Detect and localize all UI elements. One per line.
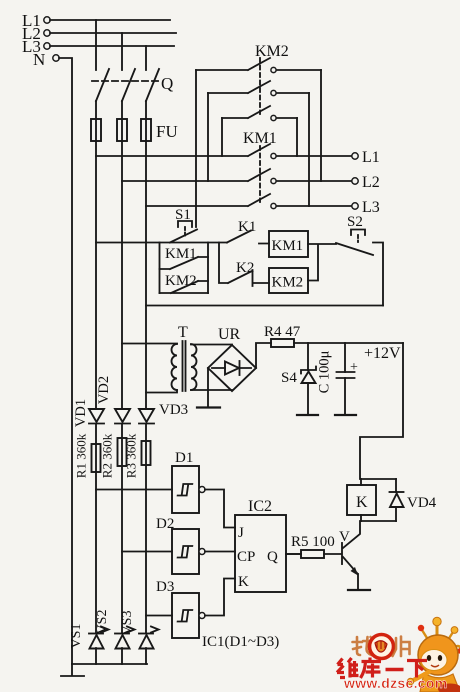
aux contact KM1 (latch) [160, 243, 209, 294]
fuse FU3 [141, 119, 151, 141]
wire KM2 middle feeder to L2 row [207, 93, 209, 181]
breaker Q pole 3 [146, 69, 159, 101]
thyristor VS3 [139, 627, 159, 649]
svg-text:+: + [350, 360, 358, 375]
wire phase C vertical [145, 46, 147, 664]
wire +12V rail [294, 342, 403, 344]
node L3 input terminal [22, 37, 50, 56]
contactor coil KM1 [269, 231, 308, 257]
resistor R5 [286, 550, 341, 558]
fuse FU1 [91, 119, 101, 141]
relay coil K [347, 479, 376, 521]
svg-text:T: T [178, 324, 188, 341]
contactor KM1 contact row 1 (L1) [96, 144, 352, 159]
node L2 input terminal [22, 24, 50, 43]
flip-flop IC2 [235, 515, 286, 592]
wire KM2 right feeder to L1 row [221, 118, 223, 156]
transistor V [342, 543, 358, 589]
svg-text:KM2: KM2 [272, 275, 304, 291]
contactor KM2 contact row 1 [196, 58, 321, 73]
relay contact K2 [219, 243, 269, 287]
svg-text:R5 100: R5 100 [291, 534, 335, 550]
diode VD1 [89, 409, 104, 424]
watermark text weiku yixia (red) [337, 658, 427, 679]
svg-text:R3 360k: R3 360k [124, 433, 139, 478]
wire KM2 row1 output down to L2 out [320, 70, 322, 181]
wire L1 bus [50, 19, 170, 21]
svg-text:+12V: +12V [364, 345, 401, 362]
diode VD3 [139, 409, 154, 424]
thyristor VS2 [115, 627, 135, 649]
svg-text:R1 360k: R1 360k [74, 433, 89, 478]
svg-text:VD2: VD2 [96, 376, 112, 404]
watermark dzsc.com mascot [407, 617, 460, 692]
node L2 output terminal [352, 174, 380, 191]
wire KM2 row3 output down to L1 out [296, 118, 298, 156]
svg-text:L2: L2 [362, 174, 380, 191]
schmitt trigger D3 [146, 593, 205, 638]
svg-text:L3: L3 [362, 199, 380, 216]
ground main [61, 664, 84, 676]
wire N down left side [59, 58, 72, 664]
relay contact K1 [227, 219, 269, 244]
svg-text:Q: Q [267, 549, 278, 565]
watermark text zhao (find) [353, 637, 375, 655]
watermark logo circle [370, 635, 394, 659]
node N input terminal [33, 50, 59, 69]
svg-text:R2 360k: R2 360k [100, 433, 115, 478]
diode VD2 [115, 409, 130, 424]
wire D3 output to K [205, 579, 235, 616]
svg-text:VD1: VD1 [73, 399, 89, 427]
svg-text:KM2: KM2 [165, 273, 197, 289]
svg-text:Q: Q [161, 74, 173, 93]
wire L2 bus [50, 32, 176, 34]
svg-text:VS3: VS3 [120, 611, 135, 636]
svg-text:KM1: KM1 [272, 238, 304, 254]
svg-text:K: K [238, 574, 249, 590]
wire bottom bus [72, 663, 147, 665]
svg-text:S4: S4 [281, 370, 297, 386]
node L1 output terminal [352, 149, 380, 166]
svg-text:V: V [339, 529, 350, 545]
svg-text:UR: UR [218, 326, 241, 343]
transformer T primary winding [122, 344, 177, 393]
ground below transistor [348, 589, 370, 591]
node L3 output terminal [352, 199, 380, 216]
thyristor VS1 [89, 627, 109, 649]
contactor KM2 contact row 3 [222, 106, 297, 121]
node L1 input terminal [22, 11, 50, 30]
wire KM2 left feeder to L3 row [195, 70, 197, 227]
wire control rail from L1 phase [96, 242, 227, 244]
schmitt trigger D2 [122, 529, 205, 574]
pushbutton S2 [336, 230, 373, 256]
zener diode S4 [301, 343, 316, 414]
breaker Q linkage dashed [92, 80, 160, 82]
wire D2 output to CP [205, 551, 235, 553]
resistor R3 [142, 441, 151, 465]
wire bottom control rail to L3 phase [146, 305, 383, 307]
contactor KM2 contact row 2 [208, 81, 309, 96]
wire D1 output to J [205, 490, 235, 528]
watermark text pian (chip) [393, 637, 410, 657]
svg-text:J: J [238, 525, 244, 541]
wire L3 bus [50, 45, 174, 47]
svg-text:S2: S2 [347, 214, 363, 230]
wire KM2 row2 output down to L3 out [308, 93, 310, 206]
rectifier bridge UR [208, 345, 256, 391]
fuse FU2 [117, 119, 127, 141]
wire relay bottom join to collector [343, 521, 396, 548]
wire phase B vertical [121, 33, 123, 664]
ground below S4 [297, 414, 318, 416]
svg-text:R4 47: R4 47 [264, 324, 301, 340]
resistor R1 [92, 444, 101, 472]
svg-text:KM1: KM1 [165, 246, 197, 262]
transformer T core [183, 341, 186, 391]
svg-text:VS1: VS1 [69, 624, 84, 649]
breaker Q pole 1 [96, 69, 109, 101]
contactor KM1 linkage dashed [259, 146, 261, 202]
breaker Q pole 2 [122, 69, 135, 101]
contactor KM1 contact row 3 (L3) [146, 194, 352, 209]
ground below C [335, 414, 356, 416]
svg-text:D1: D1 [175, 450, 193, 466]
svg-text:IC2: IC2 [248, 498, 272, 515]
wire coil outputs join [308, 244, 336, 281]
svg-text:K: K [356, 494, 368, 511]
svg-text:L1: L1 [362, 149, 380, 166]
wire Q output to R5 [286, 553, 301, 555]
wire +12V down to relay branch [360, 343, 403, 479]
wire bridge output up to rail [256, 343, 271, 368]
svg-text:VS2: VS2 [95, 610, 110, 635]
diode VD4 [390, 479, 404, 521]
contactor KM1 contact row 2 (L2) [122, 169, 352, 184]
svg-text:www.dzsc.com: www.dzsc.com [343, 675, 447, 691]
svg-text:CP: CP [237, 549, 255, 565]
svg-text:VD3: VD3 [159, 402, 188, 418]
svg-text:VD4: VD4 [407, 495, 437, 511]
aux contact KM2 (latch) [160, 273, 209, 293]
schmitt trigger D1 [96, 466, 205, 513]
contactor coil KM2 [269, 268, 308, 293]
svg-text:C 100μ: C 100μ [317, 350, 333, 393]
capacitor C [337, 343, 359, 414]
wire phase A vertical [95, 20, 97, 664]
svg-text:KM1: KM1 [243, 130, 277, 147]
svg-text:FU: FU [156, 122, 178, 141]
ground below bridge [197, 368, 220, 408]
transformer T secondary winding [191, 344, 232, 390]
resistor R2 [118, 438, 127, 466]
pushbutton S1 [170, 221, 197, 243]
svg-text:IC1(D1~D3): IC1(D1~D3) [202, 634, 279, 650]
resistor R4 [271, 339, 294, 347]
contactor KM2 linkage dashed [259, 58, 261, 114]
svg-text:N: N [33, 50, 45, 69]
wire S2 to bottom control rail [373, 243, 383, 306]
